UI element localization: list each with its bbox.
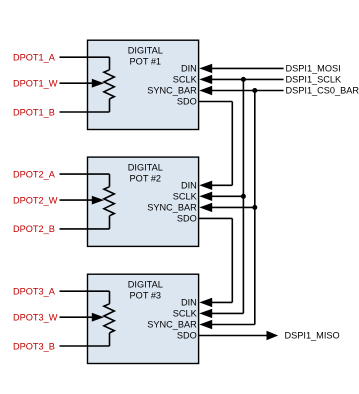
svg-text:SYNC_BAR: SYNC_BAR [147, 320, 197, 330]
svg-text:SDO: SDO [177, 214, 197, 224]
svg-text:DIN: DIN [181, 298, 197, 308]
wire DPOT3_W wiper with arrow [60, 313, 105, 322]
wire U1 SDO to U2 DIN (daisy chain) [199, 102, 233, 191]
wire DSPI1_CS0_BAR to U1 SYNC_BAR [199, 86, 283, 95]
svg-text:SDO: SDO [177, 331, 197, 341]
potentiometer R1 [104, 57, 114, 112]
svg-text:POT #3: POT #3 [130, 291, 162, 301]
wire DSPI1_SCLK to U1 SCLK [199, 75, 283, 84]
junction CS0 bus at U1 [252, 88, 257, 93]
svg-text:DPOT3_B: DPOT3_B [13, 341, 55, 351]
digital pot U1 box [88, 40, 199, 129]
wire DPOT2_W wiper with arrow [60, 196, 105, 205]
svg-text:SCLK: SCLK [173, 75, 198, 85]
svg-text:DPOT2_B: DPOT2_B [13, 224, 55, 234]
node DPOT2_B label [13, 224, 55, 234]
potentiometer R3 [104, 291, 114, 346]
svg-text:DSPI1_CS0_BAR: DSPI1_CS0_BAR [286, 86, 359, 96]
svg-text:DPOT3_W: DPOT3_W [13, 313, 58, 323]
junction SCLK bus at U2 [241, 194, 246, 199]
node DPOT3_A label [13, 287, 56, 297]
digital pot U3 box [88, 274, 199, 363]
svg-text:DIN: DIN [181, 64, 197, 74]
svg-text:DPOT1_B: DPOT1_B [13, 107, 55, 117]
svg-text:DPOT3_A: DPOT3_A [13, 287, 56, 297]
svg-text:DSPI1_SCLK: DSPI1_SCLK [286, 75, 343, 85]
svg-text:SDO: SDO [177, 97, 197, 107]
svg-text:DIGITAL: DIGITAL [128, 162, 163, 172]
node DPOT1_A label [13, 53, 56, 63]
wire SCLK bus to U2 SCLK [199, 192, 243, 201]
svg-text:DSPI1_MOSI: DSPI1_MOSI [286, 64, 341, 74]
wire U3 SDO to DSPI1_MISO [199, 331, 279, 340]
svg-text:POT #1: POT #1 [130, 57, 162, 67]
node DPOT3_B label [13, 341, 55, 351]
wire DPOT2_A to R2 top [60, 173, 110, 175]
wire DPOT3_B to R3 bottom [60, 345, 110, 347]
wire DPOT1_W wiper with arrow [60, 79, 105, 88]
wire CS0 bus to U2 SYNC_BAR [199, 203, 255, 212]
node DPOT1_W label [13, 79, 58, 89]
node DSPI1_MISO label [285, 331, 340, 341]
node DPOT1_B label [13, 107, 55, 117]
wire DPOT3_A to R3 top [60, 290, 110, 292]
node DPOT2_A label [13, 169, 56, 179]
svg-text:DIGITAL: DIGITAL [128, 45, 163, 55]
wire DPOT2_B to R2 bottom [60, 228, 110, 230]
wire CS0 bus vertical [199, 91, 255, 330]
node DSPI1_CS0_BAR label [286, 86, 359, 96]
node DSPI1_SCLK label [286, 75, 343, 85]
svg-text:DPOT1_W: DPOT1_W [13, 79, 58, 89]
junction CS0 bus at U2 [252, 205, 257, 210]
wire DSPI1_MOSI to U1 DIN [199, 64, 283, 73]
wire U2 SDO to U3 DIN (daisy chain) [199, 218, 233, 307]
svg-text:SCLK: SCLK [173, 192, 198, 202]
junction SCLK bus at U1 [241, 77, 246, 82]
svg-text:SYNC_BAR: SYNC_BAR [147, 86, 197, 96]
svg-text:SCLK: SCLK [173, 309, 198, 319]
digital pot U2 box [88, 157, 199, 246]
svg-text:SYNC_BAR: SYNC_BAR [147, 203, 197, 213]
wire DPOT1_A to R1 top [60, 56, 110, 58]
node DSPI1_MOSI label [286, 64, 341, 74]
svg-text:DIN: DIN [181, 181, 197, 191]
node DPOT2_W label [13, 195, 58, 205]
node DPOT3_W label [13, 313, 58, 323]
svg-text:DPOT2_A: DPOT2_A [13, 169, 56, 179]
svg-text:DPOT1_A: DPOT1_A [13, 53, 56, 63]
svg-text:DIGITAL: DIGITAL [128, 279, 163, 289]
wire SCLK bus vertical [199, 79, 243, 318]
svg-text:POT #2: POT #2 [130, 173, 162, 183]
potentiometer R2 [104, 174, 114, 229]
wire DPOT1_B to R1 bottom [60, 111, 110, 113]
svg-text:DSPI1_MISO: DSPI1_MISO [285, 331, 340, 341]
svg-text:DPOT2_W: DPOT2_W [13, 195, 58, 205]
